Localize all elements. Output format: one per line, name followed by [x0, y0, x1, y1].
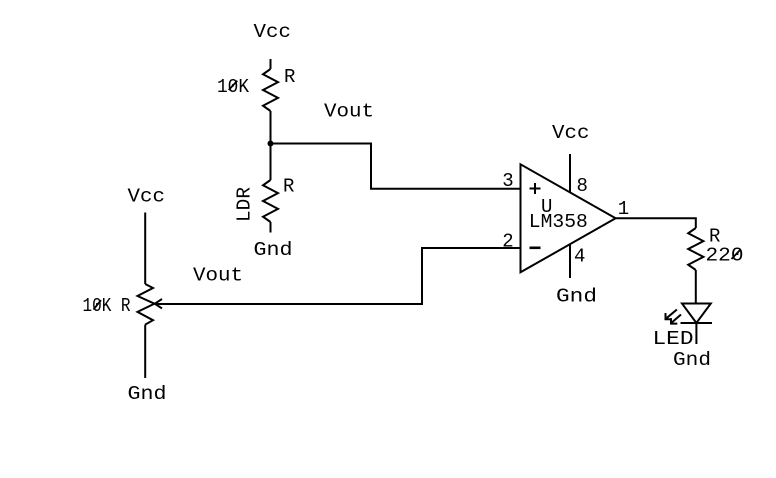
svg-text:8: 8 — [577, 175, 588, 197]
svg-text:Gnd: Gnd — [128, 383, 167, 405]
potentiometer R 10K zigzag — [138, 284, 155, 325]
wire R220 to LED — [695, 270, 697, 304]
LED cathode bar — [681, 322, 713, 324]
svg-text:LDR: LDR — [234, 187, 256, 222]
svg-text:220: 220 — [706, 245, 744, 267]
svg-text:Vcc: Vcc — [552, 122, 590, 144]
potentiometer wiper arrow head — [155, 299, 162, 308]
resistor R1 10K zigzag — [263, 69, 278, 111]
LED emission arrow 1 — [666, 310, 677, 320]
svg-text:3: 3 — [502, 170, 513, 192]
svg-text:R: R — [283, 176, 294, 198]
svg-text:2: 2 — [502, 231, 513, 253]
LED emission arrow 2 — [671, 315, 681, 324]
wire R1 to LDR through node — [270, 111, 272, 180]
svg-text:Gnd: Gnd — [254, 239, 293, 261]
svg-text:1: 1 — [618, 198, 629, 220]
wire node to op-amp pin 3 — [271, 144, 521, 189]
wire LDR bottom lead — [270, 222, 272, 233]
LED diode triangle — [682, 304, 711, 324]
wire Vcc to resistor R1 — [270, 59, 272, 69]
op-amp plus input marker — [530, 183, 541, 194]
wire wiper to op-amp pin 2 — [156, 248, 521, 304]
value label 220 — [706, 245, 744, 267]
svg-text:LED: LED — [653, 328, 694, 350]
wire pin 8 to Vcc — [569, 154, 571, 192]
wire op-amp output to resistor R220 — [616, 218, 696, 228]
svg-text:R: R — [284, 66, 295, 88]
svg-text:Vcc: Vcc — [254, 21, 292, 43]
wire pin 4 to Gnd — [569, 245, 571, 279]
svg-text:Gnd: Gnd — [556, 286, 597, 308]
svg-text:Vout: Vout — [193, 265, 243, 287]
value label 10K (R1) — [217, 76, 250, 98]
op-amp U LM358 triangle body — [521, 164, 616, 272]
svg-text:Vout: Vout — [324, 101, 374, 123]
svg-text:Vcc: Vcc — [128, 186, 166, 208]
wire Vcc to potentiometer — [144, 213, 146, 285]
wire LED cathode to Gnd — [695, 323, 697, 344]
svg-text:Gnd: Gnd — [673, 349, 711, 371]
wire potentiometer to Gnd — [144, 325, 146, 378]
svg-text:10K: 10K — [217, 76, 250, 98]
node junction dot (Vout divider tap) — [268, 141, 274, 147]
value label 10K R (potentiometer) — [83, 295, 131, 317]
op-amp minus input marker — [530, 247, 541, 250]
svg-text:10K R: 10K R — [83, 295, 131, 317]
svg-text:LM358: LM358 — [529, 211, 588, 233]
resistor R LDR zigzag — [263, 180, 278, 222]
resistor R 220 zigzag — [688, 228, 703, 270]
svg-text:4: 4 — [574, 246, 585, 268]
